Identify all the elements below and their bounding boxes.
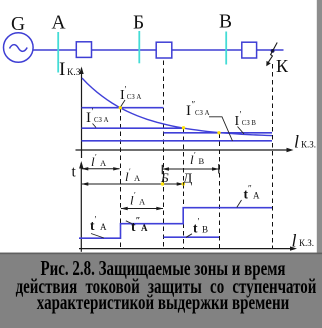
arrow l'A xyxy=(82,168,120,170)
level line I''sz.A xyxy=(82,127,184,129)
yellow dot at D on arrow xyxy=(182,182,185,185)
label t''A bold xyxy=(131,216,148,235)
step line of protection B xyxy=(164,236,220,238)
arrow l''A xyxy=(82,183,183,185)
generator G circle xyxy=(3,33,283,63)
bus B(Б) xyxy=(138,31,140,63)
level line I'''sz.A xyxy=(82,140,273,142)
fault lightning arrow K xyxy=(267,43,277,65)
label I'sz.A upper xyxy=(120,85,141,104)
arrowhead l'A left xyxy=(81,167,88,170)
label I'sz.A lower xyxy=(86,107,109,127)
dashed line zone1-A end x=120.5 xyxy=(120,108,122,249)
label I''sz.A xyxy=(186,100,210,120)
label t'A xyxy=(90,215,107,234)
tick at end of l'V xyxy=(218,164,220,174)
label I'sz.V xyxy=(235,110,257,130)
arrowhead l'A right xyxy=(113,167,120,170)
yellow dot at B on arrow xyxy=(161,182,164,185)
leader to dot zone1-A xyxy=(121,100,125,107)
t axis arrowhead xyxy=(79,161,83,169)
breaker 1 xyxy=(76,42,91,58)
generator sine wave xyxy=(10,45,28,52)
arrowhead time-arrow left xyxy=(121,207,128,210)
label l'A xyxy=(91,153,107,170)
fault dot xyxy=(271,49,275,53)
l axis horizontal (current plot) xyxy=(76,149,292,151)
arrowhead l'V right xyxy=(212,167,219,170)
label l'V xyxy=(190,151,205,168)
dashed line point D x=183.5 xyxy=(183,129,185,250)
node dot zone1-B xyxy=(217,131,220,134)
dashed line zone1-B end x=219 xyxy=(219,134,221,250)
arrow l'V xyxy=(162,168,218,170)
node dot zone1-A xyxy=(119,106,122,109)
I axis vertical xyxy=(81,69,83,159)
wire breaker1 to breaker2 xyxy=(92,49,157,51)
leader from I''sz.A to level 3 xyxy=(209,117,233,141)
label l''A xyxy=(125,167,141,184)
caption panel xyxy=(0,253,322,328)
wire breaker2 to breaker3 xyxy=(172,49,242,51)
t axis vertical xyxy=(80,163,82,252)
arrowhead l'V left xyxy=(162,167,169,170)
staircase of protection A xyxy=(79,208,272,239)
l axis horizontal (time plot) xyxy=(79,248,294,250)
arrowhead time-arrow right xyxy=(156,207,163,210)
breaker 2 xyxy=(156,42,172,58)
time axis arrowhead xyxy=(290,246,297,250)
short-circuit current curve xyxy=(82,78,272,136)
label l'A (time plot arrow) xyxy=(130,191,146,208)
level line I'sz.A xyxy=(82,107,164,109)
l axis arrowhead xyxy=(287,148,294,152)
node dot D on curve xyxy=(182,126,185,129)
tick at start of l'V xyxy=(161,165,163,174)
leader from t'A xyxy=(91,234,104,239)
leader from t'''A xyxy=(237,200,242,207)
wire breaker3 to fault K xyxy=(257,49,284,51)
breaker 3 xyxy=(242,42,257,58)
leader from lower label xyxy=(93,124,97,128)
leader from I'sz.V xyxy=(238,127,245,135)
label t'B xyxy=(193,217,208,236)
bus A xyxy=(57,32,59,73)
leader from t''A xyxy=(126,221,132,224)
dashed line breaker2 x=163.5 xyxy=(163,61,165,250)
level line I'sz.V xyxy=(164,132,273,134)
arrow l''A small (time plot) xyxy=(121,208,163,210)
dashed line fault K x=272 xyxy=(272,64,274,249)
right gray screen strip xyxy=(317,0,322,253)
bus V(В) xyxy=(225,32,227,65)
label t'''A (third stage) xyxy=(244,184,261,202)
leader from t'B xyxy=(186,234,192,238)
arrowhead l''A right xyxy=(177,182,184,185)
arrowhead l''A left xyxy=(81,182,88,185)
I axis arrowhead xyxy=(79,67,83,75)
feeder wire G to breaker1 xyxy=(33,49,76,51)
